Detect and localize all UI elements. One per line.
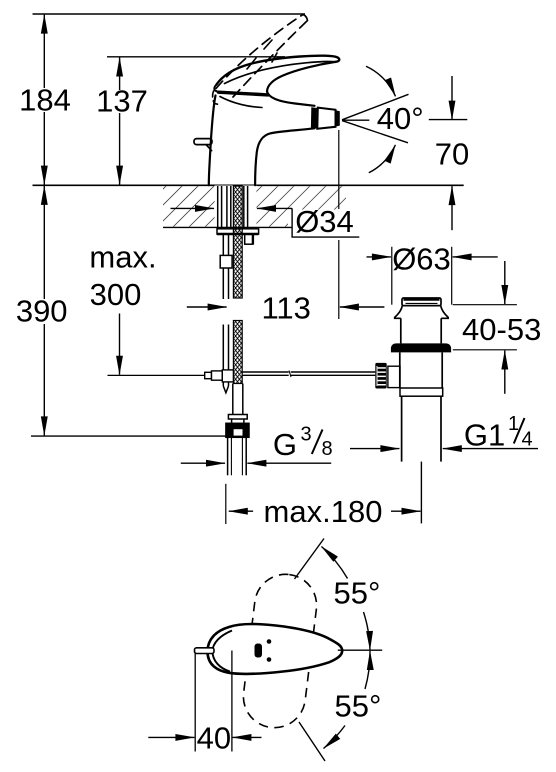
flare right side (441, 306, 449, 319)
tailpiece inner walls (230, 438, 232, 476)
svg-text:max.180: max.180 (264, 494, 383, 529)
svg-text:G: G (273, 427, 297, 462)
spout top edge (267, 92, 315, 106)
extension line top of solid lever (137) (107, 56, 285, 58)
countertop hatched section (163, 186, 346, 228)
extension line 40 left (194, 654, 196, 752)
shank left wall (217, 186, 219, 229)
reference line 390 bottom (31, 435, 226, 437)
svg-text:Ø34: Ø34 (295, 204, 354, 239)
text G 3/8 (273, 424, 333, 462)
dimension G114 leader right arrow (443, 448, 538, 450)
knurled adjuster screw (375, 363, 386, 389)
dimension 40 left arrow (148, 736, 194, 738)
horizontal linkage rod to waste (242, 371, 375, 373)
svg-text:55°: 55° (335, 689, 382, 724)
dimension 137 line lower (119, 113, 121, 185)
lever dot mark lower (267, 657, 272, 662)
svg-text:300: 300 (90, 277, 142, 312)
dimension 70 upper arrow (451, 76, 453, 120)
lever nose (214, 85, 218, 93)
linkage coupling main block (222, 370, 233, 382)
extension line D63 right (451, 247, 453, 305)
lever top view outline (208, 624, 343, 674)
lever inner top line (225, 62, 336, 84)
upper 40deg ray (342, 94, 409, 120)
40deg centerline right (429, 119, 468, 121)
lever underside (267, 62, 335, 92)
dimension G38 left arrow (181, 462, 225, 464)
40deg centerline left (342, 119, 369, 121)
countertop top line (33, 184, 464, 186)
dimension 390 line lower (43, 324, 45, 435)
mounting clamp plate (217, 229, 259, 234)
dimension D34 left arrow (171, 207, 215, 209)
dimension 390 line upper (43, 186, 45, 299)
extension line 40 right (231, 651, 233, 752)
linkage coupling mid block (212, 371, 223, 380)
dimension 113 left arrow (187, 306, 227, 308)
svg-text:max.: max. (89, 240, 156, 275)
waste center line (420, 462, 422, 524)
dimension D63 left arrow (367, 256, 391, 258)
lever dot mark upper (267, 639, 272, 644)
linkage coupling small block (205, 372, 212, 378)
svg-text:Ø63: Ø63 (392, 242, 451, 277)
G38 flange (228, 415, 247, 420)
dimension 40 right arrow (232, 736, 261, 738)
pull rod above counter (226, 186, 228, 229)
flare left side (395, 306, 403, 319)
lever centerline (338, 649, 382, 651)
dimension D34 right arrow (257, 207, 292, 209)
dimension G38 right arrow (247, 462, 331, 464)
extension line top (lever raised tip) (33, 13, 306, 15)
dashed raised lever inner dashes (247, 40, 277, 69)
aerator block (317, 108, 335, 129)
lever top view inner cap arc (213, 631, 233, 672)
lever/body junction thick line (219, 92, 269, 95)
svg-text:1: 1 (508, 413, 519, 435)
dimension 137 line upper (119, 58, 121, 91)
coupling band (400, 388, 443, 396)
extension line 113 right (from aerator) upper part (338, 130, 340, 209)
temperature stop tab (194, 139, 212, 145)
plug cap (402, 298, 441, 306)
svg-text:4: 4 (522, 429, 533, 451)
dashed swing envelope (rotated stadium) (240, 571, 320, 731)
dashed raised lever edge A (216, 15, 303, 89)
clamp side tab (245, 234, 253, 244)
svg-text:G1: G1 (464, 417, 505, 452)
55deg upper arc (322, 547, 348, 579)
55deg lower arc (365, 651, 370, 689)
svg-text:40-53: 40-53 (462, 312, 541, 347)
extension line 113 right lower part (338, 240, 340, 319)
pop-up waste assembly (375, 298, 451, 523)
svg-text:8: 8 (322, 438, 333, 460)
dimension 70 lower arrow (451, 186, 453, 230)
dimension G114 left arrow (350, 448, 399, 450)
svg-text:113: 113 (261, 290, 310, 325)
svg-text:3: 3 (301, 424, 312, 446)
pull rod below counter (222, 234, 224, 299)
text G1 1/4 (464, 413, 533, 453)
dashed raised lever edge B (233, 15, 308, 98)
D34 leader step (292, 208, 359, 237)
aerator end cap (dark) (335, 110, 340, 127)
pull rod ferrule (220, 255, 232, 268)
body right edge (255, 128, 314, 185)
40deg lower arc (369, 145, 396, 173)
side port (388, 366, 400, 387)
svg-text:390: 390 (16, 294, 68, 329)
40deg upper arc (366, 66, 396, 96)
svg-text:55°: 55° (334, 576, 381, 611)
rubber seal ring (dark) (391, 343, 451, 352)
svg-text:40°: 40° (377, 101, 424, 136)
G38 neck (231, 419, 233, 423)
svg-text:184: 184 (19, 83, 71, 118)
dimension max300 line (119, 314, 121, 375)
lower 40deg ray (342, 121, 408, 143)
faucet main view (194, 15, 339, 186)
dimension 113 right arrow (340, 306, 385, 308)
threaded stud lower part (233, 321, 242, 384)
dimension max180 left arrow (229, 510, 253, 512)
below-counter assembly (217, 186, 259, 475)
svg-text:137: 137 (96, 84, 148, 119)
dashed nose of raised lever (213, 91, 219, 105)
body escutcheon curve (220, 97, 262, 108)
reference line 40-53 bottom (453, 349, 517, 351)
lever outer top edge (217, 56, 340, 85)
55deg upper ray (295, 539, 325, 580)
drain tube walls (401, 396, 403, 461)
countertop bottom line (163, 226, 292, 228)
dimension 184 line upper (43, 15, 45, 88)
svg-text:40: 40 (197, 720, 231, 755)
dimension 184 line lower (43, 112, 45, 185)
tailpiece outer walls (227, 438, 229, 476)
tab support line (206, 145, 212, 151)
dimension 40-53 lower arrow (504, 351, 506, 394)
40 degree rays and arcs (342, 66, 467, 173)
dimension 40-53 upper arrow (504, 261, 506, 304)
cylinder walls (400, 318, 402, 343)
aerator spout end ring (dark) (311, 107, 317, 128)
extension line max180 left (225, 484, 227, 524)
reference line 40-53 top (453, 304, 517, 306)
dimension max180 right arrow (391, 510, 421, 512)
G38 nut (226, 423, 249, 437)
pull rod pointed tip (223, 386, 228, 393)
svg-text:70: 70 (435, 137, 469, 172)
pop-up linkage (205, 370, 376, 382)
extension line D63 left (391, 247, 393, 305)
reference line max300 bottom (108, 374, 205, 376)
lever logo bar mark (255, 644, 263, 658)
lever tab top view (195, 648, 215, 654)
shank right wall (243, 186, 245, 229)
threaded stud upper part (233, 186, 242, 298)
supply pipe below stud (232, 384, 234, 415)
55deg lower ray (299, 722, 325, 761)
waste body walls (399, 352, 401, 388)
dimension D63 right arrow (453, 256, 498, 258)
body front edge (209, 96, 216, 186)
